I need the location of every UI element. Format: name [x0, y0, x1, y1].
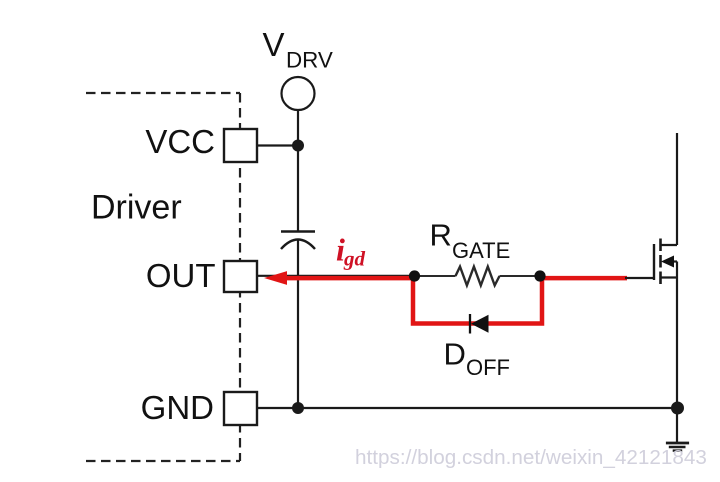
- ground symbol bar2: [669, 446, 686, 449]
- svg-text:GATE: GATE: [452, 238, 510, 263]
- svg-text:OFF: OFF: [466, 355, 510, 380]
- wire resistor branch left: [415, 275, 456, 277]
- svg-text:GND: GND: [141, 389, 214, 426]
- transistor M1 drain connect: [661, 244, 678, 246]
- transistor M1 gate bar: [653, 244, 655, 280]
- transistor M1 body arrow line: [668, 260, 677, 262]
- wire MOSFET gate lead: [625, 277, 654, 279]
- pin OUT square: [224, 261, 257, 292]
- transistor M1 channel middle segment: [659, 255, 662, 268]
- driver box top dashed edge: [86, 92, 240, 94]
- wire capacitor bottom to GND node: [297, 240, 299, 408]
- node resistor right junction dot: [534, 270, 545, 281]
- driver box right dashed edge: [239, 93, 241, 461]
- ground symbol bar1: [666, 442, 689, 445]
- node source-GND junction dot: [671, 402, 684, 415]
- pin GND square: [224, 392, 257, 425]
- wire GND rail: [257, 407, 677, 409]
- wire VDRV circle to node: [297, 110, 299, 146]
- svg-text:D: D: [444, 337, 466, 372]
- transistor M1 channel bottom segment: [659, 272, 662, 285]
- transistor M1 source connect: [661, 276, 678, 278]
- svg-text:OUT: OUT: [146, 257, 216, 294]
- wire node to capacitor top plate: [297, 146, 299, 231]
- svg-text:DRV: DRV: [286, 48, 333, 73]
- diode DOFF cathode bar: [469, 314, 471, 334]
- wire drain lead up: [676, 133, 678, 245]
- svg-text:gd: gd: [343, 246, 366, 270]
- wire red turn-off current path (gate to OUT via DOFF): [287, 278, 627, 323]
- svg-text:VCC: VCC: [145, 123, 215, 160]
- wire VCC pin to VDRV node: [257, 144, 298, 146]
- svg-text:V: V: [263, 26, 285, 63]
- wire source lead down: [676, 262, 678, 444]
- svg-text:https://blog.csdn.net/weixin_4: https://blog.csdn.net/weixin_42121843: [355, 446, 707, 469]
- ground symbol bar3: [673, 449, 683, 451]
- transistor M1 channel top segment: [659, 239, 662, 252]
- wire OUT pin to gate node (under red path): [257, 275, 414, 277]
- capacitor CDRV curved plate: [281, 240, 315, 250]
- node GND-cap junction dot: [292, 402, 304, 414]
- wire resistor branch right: [500, 275, 541, 277]
- node VDRV junction dot: [292, 140, 304, 152]
- svg-text:R: R: [430, 218, 452, 253]
- capacitor CDRV top plate: [281, 230, 315, 232]
- diode DOFF triangle: [471, 315, 489, 333]
- svg-text:Driver: Driver: [91, 189, 182, 227]
- resistor RGATE zigzag: [456, 267, 500, 286]
- pin VCC square: [224, 129, 257, 162]
- transistor M1 body arrow: [661, 256, 674, 268]
- driver box bottom dashed edge: [86, 460, 240, 462]
- node resistor left junction dot: [409, 270, 420, 281]
- red arrowhead into OUT: [264, 271, 287, 285]
- VDRV source circle: [282, 77, 315, 110]
